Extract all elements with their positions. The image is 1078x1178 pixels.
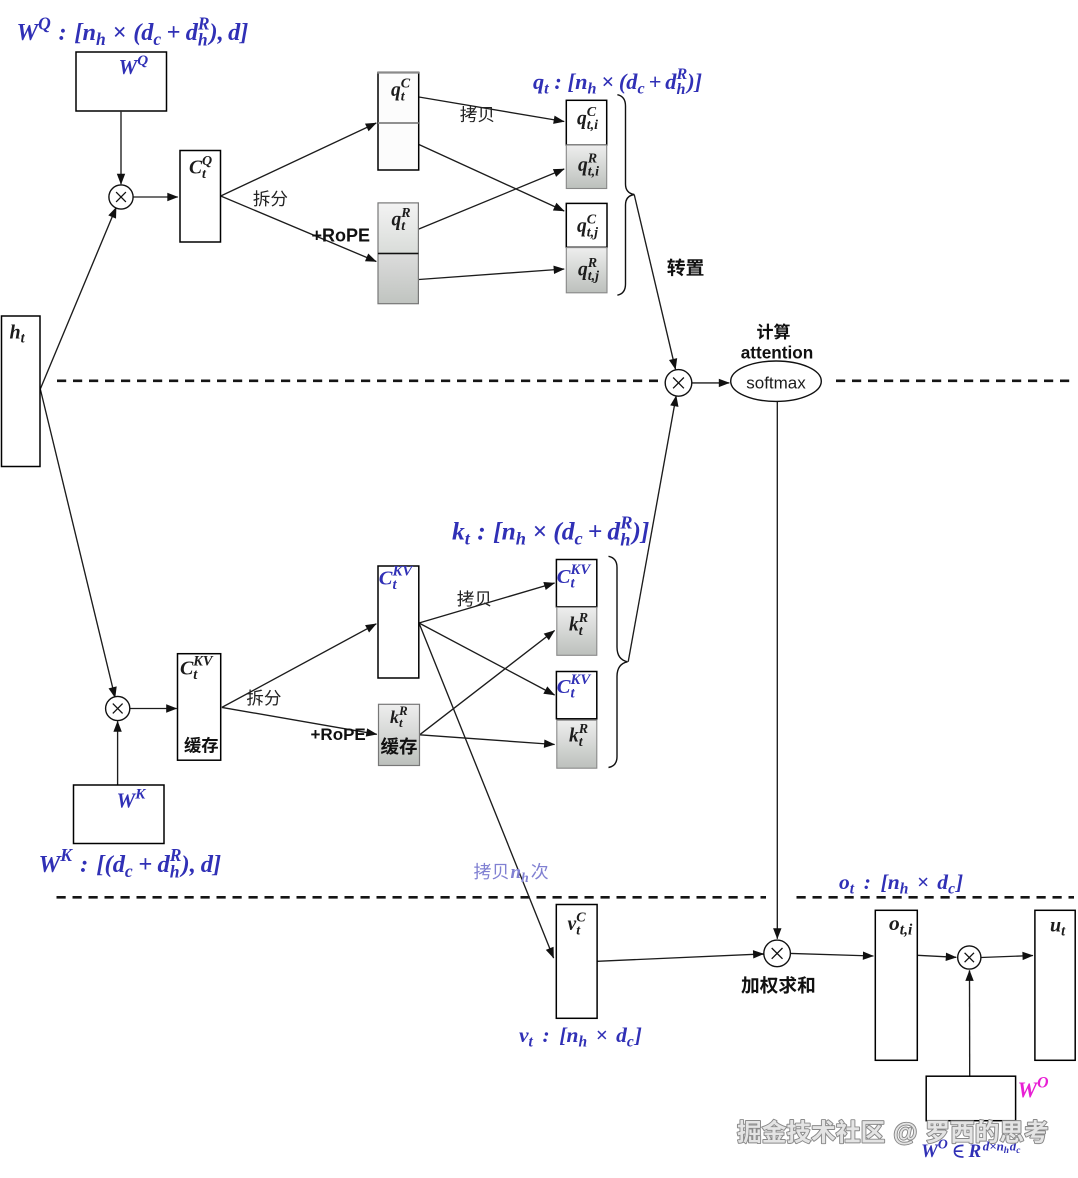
svg-text:attention: attention [741,342,814,362]
mul4 circle weighted-sum [764,940,791,967]
box stack2 C_tKV [556,672,596,719]
arrow C_tQ to q_tR (+RoPE) [221,196,377,262]
svg-text:t: t [529,1033,534,1050]
svg-text:t: t [544,81,549,98]
svg-text:h: h [900,880,909,897]
svg-text:d: d [626,69,638,94]
svg-text:c: c [948,880,955,897]
svg-text:o: o [839,870,850,894]
box C_tQ [180,151,221,243]
svg-text:+: + [167,19,181,46]
label v_tC in box [568,910,587,938]
svg-text:×: × [601,69,614,94]
label o_ti in box [889,911,913,938]
mul3 circle attention [665,370,692,397]
svg-text:W: W [17,19,41,46]
svg-text:o: o [889,911,900,935]
svg-text:]: ] [238,19,248,46]
svg-text:k: k [452,517,465,546]
svg-text:h: h [521,870,529,885]
label weighted-sum (jiaquanqiuhe) [741,976,814,994]
svg-text:O: O [1037,1074,1048,1091]
svg-text:k: k [569,615,579,636]
svg-text:c: c [638,81,645,98]
svg-text:t,i: t,i [900,921,913,938]
svg-text:C: C [557,566,571,588]
svg-text:K: K [59,845,73,865]
box h_t input [2,316,41,467]
svg-text:n: n [502,517,516,546]
dashed separator bottom left [57,896,767,899]
svg-text:,: , [217,19,224,46]
arrow h_t to mul1 [40,207,116,389]
svg-text:q: q [578,155,588,176]
arrow k_tR to stack2 kR [420,735,555,745]
box q_tR gradient with divider [378,203,418,304]
svg-text:t: t [465,529,471,549]
svg-text:C: C [180,658,194,680]
arrow q_tR to q_tjR [419,269,564,280]
label stack2 k_tR [569,722,588,750]
arrow q_tC to q_tjC [419,145,564,212]
arrow W_K to mul2 [117,721,119,784]
label W_O magenta [1018,1074,1049,1102]
arrow h_t to mul2 [40,389,115,698]
svg-text:k: k [390,707,399,727]
label copy (kaobei) KV [457,590,490,606]
svg-text:): ) [630,517,641,546]
svg-text:): ) [208,19,218,46]
svg-text:×: × [113,19,127,46]
label transpose (zhuanzhi) [667,259,703,277]
svg-text:q: q [391,80,401,101]
box q_tiR gradient [566,145,606,189]
label stack1 C_tKV blue [557,562,592,592]
svg-text:t: t [399,715,403,730]
svg-text:Q: Q [137,53,148,69]
svg-text:softmax: softmax [746,373,806,392]
svg-text:q: q [577,216,587,237]
svg-text::: : [864,870,871,894]
arrow C_tKV to stack1 C (copy) [419,583,555,623]
box q_tiC [566,100,606,145]
svg-text:+: + [649,69,662,94]
svg-text:): ) [180,851,190,878]
label W_Q in box [119,53,149,79]
label stack1 k_tR [569,611,588,639]
svg-text:+: + [138,851,152,878]
arrow mul4 to o_ti [791,953,874,956]
svg-text:h: h [620,529,630,549]
label k_tR cache [390,703,408,730]
arrow q_tC to q_tiC (copy) [419,97,564,122]
box stack1 k_tR gradient [557,607,597,655]
svg-text:q: q [578,260,588,281]
label q_tiR in box [578,152,599,180]
box stack1 C_tKV [556,560,596,607]
svg-text:R: R [968,1141,982,1162]
box W_K weight [74,785,165,844]
label +RoPE KV [311,725,366,744]
arrow k-brace to mul3 [628,396,676,662]
svg-text:q: q [533,69,544,94]
svg-text:v: v [519,1023,529,1047]
mul2 circle KV [106,696,130,720]
svg-text:): ) [685,69,694,94]
svg-text:d: d [186,19,199,46]
svg-text:n: n [83,19,97,46]
label cache (huancun) C_tKV [184,737,218,753]
svg-text:n: n [575,69,587,94]
label compute (jisuan) [757,323,790,339]
arrow mul5 to u_t [981,956,1033,958]
svg-text:h: h [170,862,180,882]
label o_t dims [839,870,963,897]
box o_ti [875,910,917,1060]
svg-text:t,j: t,j [587,226,598,241]
arrow mul2 to C_tKV cache [129,708,177,710]
label split (chaifen) KV [247,690,281,706]
svg-text:h: h [588,81,597,98]
label stack2 C_tKV blue [557,672,592,702]
label q_tR in box [392,206,411,234]
svg-text:+: + [588,517,603,546]
svg-text:×: × [532,517,547,546]
label q_tjR in box [578,256,599,284]
svg-text::: : [59,19,67,46]
label W_K dims [39,845,222,881]
svg-text:d: d [141,19,154,46]
box q_tjR gradient [566,248,607,293]
svg-text:t,i: t,i [588,165,599,180]
label attention [741,342,814,362]
svg-text:]: ] [639,517,650,546]
svg-text:d: d [158,851,171,878]
box v_tC [556,905,597,1019]
svg-text:d: d [228,19,241,46]
svg-text:c: c [125,861,133,881]
svg-text:d: d [665,69,677,94]
dashed separator top left [57,379,658,382]
svg-text:W: W [119,55,139,79]
svg-text:n: n [567,1023,579,1047]
svg-text::: : [477,517,486,546]
box W_O weight [926,1076,1015,1121]
arrow k_tR to stack1 kR [420,631,555,735]
svg-text:+RoPE: +RoPE [312,226,371,246]
svg-text:h: h [1004,1146,1009,1156]
svg-text:c: c [153,29,161,49]
svg-text:W: W [39,851,63,878]
wire softmax down to mul4 [776,402,778,939]
svg-text:v: v [568,914,577,935]
arrow mul3 to softmax [692,382,729,384]
svg-text:Q: Q [38,13,51,33]
svg-text:W: W [117,789,137,813]
svg-text:]: ] [693,69,702,94]
svg-text:t,i: t,i [587,118,598,133]
svg-text:h: h [198,30,208,50]
arrow q_tR to q_tiR [419,169,564,229]
label W_O element-of R [921,1137,1021,1162]
svg-text:t,j: t,j [588,269,599,284]
svg-text:W: W [1018,1077,1039,1102]
arrow C_tKV cache to C_tKV (split) [222,624,376,708]
label h_t in box [10,322,26,347]
watermark juejin community [738,1120,1048,1147]
box stack2 k_tR gradient [557,720,597,768]
label C_tKV cache black [180,654,214,683]
svg-text:c: c [627,1033,634,1050]
box C_tKV latent [378,566,419,678]
box u_t output [1035,910,1075,1060]
arrow W_Q to mul1 [120,112,122,184]
label copy nh times [474,862,548,885]
arrow C_tKV to stack2 C [419,623,555,695]
svg-text:d: d [201,851,214,878]
svg-text:q: q [577,109,587,130]
svg-text:C: C [557,676,571,698]
arrow o_ti to mul5 [918,955,957,957]
label split (chaifen) Q [253,190,287,206]
svg-text:]: ] [211,851,221,878]
label q_t dims [533,66,702,98]
svg-text:C: C [379,568,393,590]
arrow W_O to mul5 [969,970,971,1076]
svg-text:,: , [189,851,196,878]
svg-text::: : [80,851,88,878]
box q_tjC [566,203,607,247]
svg-text:]: ] [633,1023,642,1047]
arrow v_tC to mul4 [597,954,763,961]
svg-text:×: × [596,1023,608,1047]
box k_tR cache gradient [379,704,420,765]
brace k_t stack [609,556,628,767]
brace q_t stack [617,95,634,296]
label q_tjC in box [577,212,598,240]
arrow C_tKV cache to k_tR (+RoPE) [222,707,377,734]
arrow C_tQ to q_tC (split) [221,123,377,196]
label copy (kaobei) Q [460,106,493,122]
box q_tC with divider [378,73,420,171]
arrow C_tKV to v_tC (copy nh times) [419,623,554,958]
box C_tKV cache [178,654,221,761]
arrow q-brace to mul3 (transpose) [634,195,675,370]
label q_tC in box [391,76,411,104]
svg-text:n: n [511,862,522,883]
svg-text:h: h [579,1033,588,1050]
svg-text:u: u [1050,915,1061,937]
label cache (huancun) k_tR [381,737,417,754]
svg-text:t: t [850,880,855,897]
svg-text::: : [543,1023,550,1047]
label C_tQ in box [189,154,212,182]
arrow mul1 to C_tQ [132,196,178,198]
softmax ellipse [731,361,822,401]
svg-text:h: h [516,529,526,549]
label q_tiC in box [577,105,598,133]
svg-text:h: h [677,81,686,98]
svg-text:C: C [189,158,203,179]
dashed separator bottom right [797,896,1075,899]
svg-text:×: × [917,870,929,894]
label C_tKV latent blue [379,564,414,594]
svg-text:h: h [96,29,106,49]
svg-text:W: W [921,1141,939,1162]
label u_t in box [1050,915,1066,940]
svg-text:+RoPE: +RoPE [311,725,366,744]
label k_t dims [452,512,649,549]
dashed separator top right [836,379,1071,382]
svg-text:n: n [888,870,900,894]
box W_Q weight [76,52,167,111]
svg-text:h: h [10,322,21,344]
svg-text:k: k [569,726,579,747]
svg-text:c: c [575,529,583,549]
svg-text:d: d [113,851,126,878]
svg-text:]: ] [954,870,963,894]
svg-text::: : [554,69,561,94]
svg-text:q: q [392,210,402,231]
mul1 circle Q [109,185,133,209]
label v_t dims [519,1023,642,1050]
mul5 circle output [958,946,981,969]
label +RoPE Q [312,226,371,246]
svg-text:K: K [134,786,146,802]
svg-text:@: @ [893,1120,917,1147]
label W_K in box [117,786,147,812]
label W_Q dims [17,13,249,49]
